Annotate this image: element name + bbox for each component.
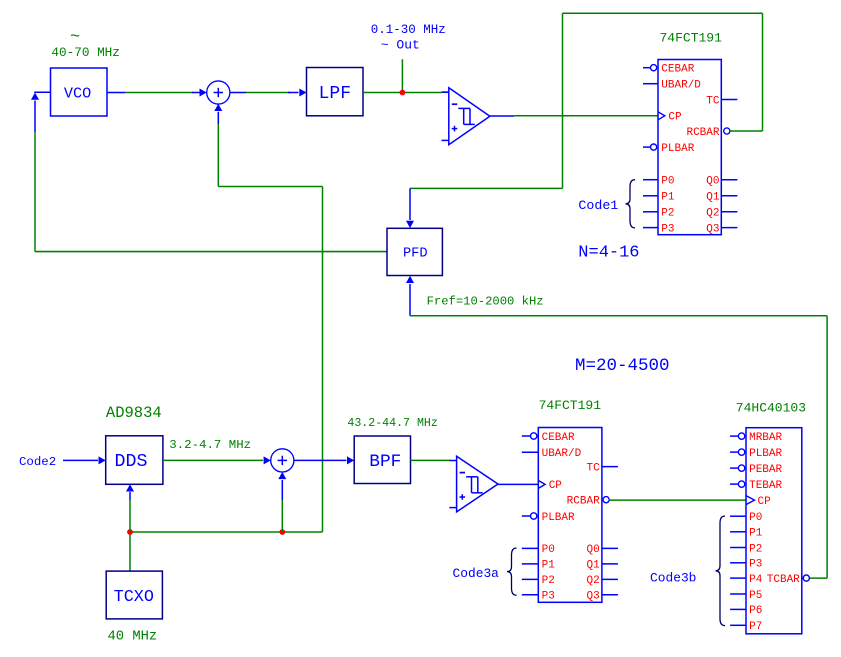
IC U6 74FCT191 xyxy=(538,428,602,603)
pin Q3 U3 xyxy=(706,223,737,235)
svg-text:P1: P1 xyxy=(661,192,675,204)
brace Code3a xyxy=(507,548,517,595)
pin P2 U3 xyxy=(643,208,675,220)
svg-text:Q0: Q0 xyxy=(586,544,599,556)
pin TCBAR U7 xyxy=(767,574,810,586)
wire node up into S2 xyxy=(278,472,286,532)
comparator U2 (schmitt) xyxy=(442,88,490,145)
pin P2 U6 xyxy=(522,575,555,587)
svg-text:P2: P2 xyxy=(749,543,762,555)
pin UBAR/D U3 xyxy=(643,80,701,92)
svg-text:P2: P2 xyxy=(661,208,674,220)
svg-text:74FCT191: 74FCT191 xyxy=(660,31,723,46)
svg-text:DDS: DDS xyxy=(115,452,148,472)
svg-text:Q3: Q3 xyxy=(706,223,719,235)
pin RCBAR U3 xyxy=(686,127,729,139)
pin RCBAR U6 xyxy=(567,496,610,508)
node at TCXO/DDS xyxy=(127,529,133,535)
svg-text:CP: CP xyxy=(668,112,682,124)
svg-text:P0: P0 xyxy=(542,544,555,556)
pin CEBAR U3 xyxy=(643,64,695,76)
svg-text:74HC40103: 74HC40103 xyxy=(736,401,806,416)
svg-text:P0: P0 xyxy=(749,512,762,524)
svg-text:Q1: Q1 xyxy=(586,560,600,572)
pin CP U6 (clock) xyxy=(538,480,562,492)
block DDS xyxy=(106,436,163,485)
svg-text:TEBAR: TEBAR xyxy=(749,480,782,492)
IC U7 74HC40103 xyxy=(746,428,802,634)
pin CP U7 (clock) xyxy=(746,496,771,508)
wire U5 out to 74FCT191 CP xyxy=(498,483,538,485)
svg-text:Q0: Q0 xyxy=(706,176,719,188)
svg-text:PLBAR: PLBAR xyxy=(749,448,782,460)
pin MRBAR U7 xyxy=(730,432,782,444)
wire 40MHz to summer S1 (bottom input) xyxy=(130,104,323,532)
pin P5 U7 xyxy=(730,590,762,602)
svg-text:Code1: Code1 xyxy=(578,198,618,213)
pin P1 U7 xyxy=(730,528,763,540)
pin P1 U6 xyxy=(522,560,555,572)
pin PLBAR U7 xyxy=(730,448,782,460)
block VCO xyxy=(51,68,108,116)
pin P0 U3 xyxy=(643,176,675,188)
wire S2 to BPF xyxy=(294,456,354,464)
svg-text:P3: P3 xyxy=(749,559,762,571)
svg-text:Code2: Code2 xyxy=(19,455,56,469)
svg-text:PLBAR: PLBAR xyxy=(661,143,694,155)
wire RCBAR feedback to PFD xyxy=(406,13,763,228)
wire RCBAR U6 to CP U7 xyxy=(609,499,746,501)
wire node up into DDS xyxy=(126,484,134,532)
pin CEBAR U6 xyxy=(522,432,575,444)
pin TEBAR U7 xyxy=(730,480,782,492)
svg-text:PLBAR: PLBAR xyxy=(542,512,575,524)
block LPF xyxy=(307,68,364,116)
pin P3 U3 xyxy=(643,223,675,235)
svg-text:PEBAR: PEBAR xyxy=(749,464,782,476)
wire tick into comparator U2 xyxy=(442,91,449,93)
svg-text:Code3a: Code3a xyxy=(453,566,500,581)
block TCXO xyxy=(106,571,162,619)
svg-text:Q2: Q2 xyxy=(586,575,599,587)
svg-text:Code3b: Code3b xyxy=(650,571,696,586)
svg-text:VCO: VCO xyxy=(64,85,91,103)
pin TC U3 xyxy=(706,95,737,107)
svg-text:RCBAR: RCBAR xyxy=(686,127,719,139)
pin Q2 U6 xyxy=(586,575,617,587)
svg-text:Fref=10-2000 kHz: Fref=10-2000 kHz xyxy=(427,295,544,309)
comparator U5 (schmitt) xyxy=(449,456,498,512)
svg-text:P1: P1 xyxy=(542,560,556,572)
svg-text:TCBAR: TCBAR xyxy=(767,574,800,586)
pin P4 U7 xyxy=(730,574,763,586)
summing junction S2 xyxy=(271,449,294,472)
pin Q1 U6 xyxy=(586,560,617,572)
pin P6 U7 xyxy=(730,605,762,617)
svg-text:P6: P6 xyxy=(749,605,762,617)
wire LPF output / Out stub xyxy=(363,59,442,92)
junction node Out xyxy=(400,90,406,96)
svg-text:CP: CP xyxy=(549,480,563,492)
svg-text:74FCT191: 74FCT191 xyxy=(539,398,602,413)
pin PEBAR U7 xyxy=(730,464,782,476)
svg-text:M=20-4500: M=20-4500 xyxy=(575,356,670,376)
pin P7 U7 xyxy=(730,621,762,633)
svg-text:43.2-44.7 MHz: 43.2-44.7 MHz xyxy=(347,417,437,430)
brace Code3b xyxy=(716,516,726,626)
svg-text:~ Out: ~ Out xyxy=(381,38,420,53)
svg-text:P1: P1 xyxy=(749,528,763,540)
svg-text:P4: P4 xyxy=(749,574,763,586)
block BPF xyxy=(354,436,410,484)
svg-text:P0: P0 xyxy=(661,176,674,188)
wire S1 to LPF xyxy=(230,89,307,97)
pin PLBAR U3 xyxy=(643,143,695,155)
svg-text:CEBAR: CEBAR xyxy=(661,64,694,76)
pin P0 U7 xyxy=(730,512,762,524)
svg-text:CEBAR: CEBAR xyxy=(542,432,575,444)
svg-text:3.2-4.7 MHz: 3.2-4.7 MHz xyxy=(169,438,251,452)
svg-text:P3: P3 xyxy=(542,591,555,603)
svg-text:P3: P3 xyxy=(661,223,674,235)
wire BPF to comparator U5 xyxy=(411,459,450,461)
svg-text:CP: CP xyxy=(758,496,772,508)
node at S2 drop xyxy=(279,529,285,535)
pin Q0 U6 xyxy=(586,544,617,556)
pin TC U6 xyxy=(586,462,617,474)
pin Q1 U3 xyxy=(706,192,737,204)
wire Code2 into DDS xyxy=(63,456,106,464)
svg-text:PFD: PFD xyxy=(403,247,428,262)
svg-text:Q2: Q2 xyxy=(706,208,719,220)
svg-text:P7: P7 xyxy=(749,621,762,633)
pin P0 U6 xyxy=(522,544,555,556)
svg-text:0.1-30 MHz: 0.1-30 MHz xyxy=(371,23,446,37)
pin Q3 U6 xyxy=(586,591,617,603)
pin CP U3 (clock) xyxy=(658,112,682,124)
svg-text:RCBAR: RCBAR xyxy=(567,496,600,508)
svg-text:BPF: BPF xyxy=(369,452,401,472)
svg-text:40 MHz: 40 MHz xyxy=(108,629,158,644)
pin Q0 U3 xyxy=(706,176,737,188)
arrow into VCO input elbow xyxy=(31,92,51,100)
svg-text:AD9834: AD9834 xyxy=(106,404,162,422)
svg-text:TC: TC xyxy=(706,95,720,107)
pin P3 U7 xyxy=(730,559,762,571)
svg-text:UBAR/D: UBAR/D xyxy=(542,448,582,460)
summing junction S1 xyxy=(207,81,230,104)
wire DDS out to summer S2 xyxy=(163,456,271,464)
wire TCXO up to node xyxy=(129,532,131,571)
wire VCO out to summer S1 xyxy=(107,89,207,97)
pin Q2 U3 xyxy=(706,208,737,220)
svg-text:40-70 MHz: 40-70 MHz xyxy=(51,45,120,60)
block PFD xyxy=(387,228,442,275)
svg-text:Q1: Q1 xyxy=(706,192,720,204)
wire U2 out to 74FCT191 CP xyxy=(490,115,658,117)
wire: PFD output to VCO control (left feedback) xyxy=(35,101,387,252)
svg-text:LPF: LPF xyxy=(319,84,351,104)
svg-text:Q3: Q3 xyxy=(586,591,599,603)
svg-text:N=4-16: N=4-16 xyxy=(578,243,639,262)
brace Code1 xyxy=(626,180,636,228)
pin P3 U6 xyxy=(522,591,555,603)
svg-text:TCXO: TCXO xyxy=(114,588,154,607)
IC U3 74FCT191 xyxy=(658,60,721,235)
svg-text:P2: P2 xyxy=(542,575,555,587)
svg-text:TC: TC xyxy=(586,462,600,474)
pin UBAR/D U6 xyxy=(522,448,582,460)
svg-text:P5: P5 xyxy=(749,590,762,602)
wire PFD ref input (Fref) xyxy=(406,276,827,578)
svg-text:UBAR/D: UBAR/D xyxy=(661,80,701,92)
svg-text:MRBAR: MRBAR xyxy=(749,432,782,444)
pin P1 U3 xyxy=(643,192,675,204)
pin PLBAR U6 xyxy=(522,512,575,524)
pin P2 U7 xyxy=(730,543,762,555)
